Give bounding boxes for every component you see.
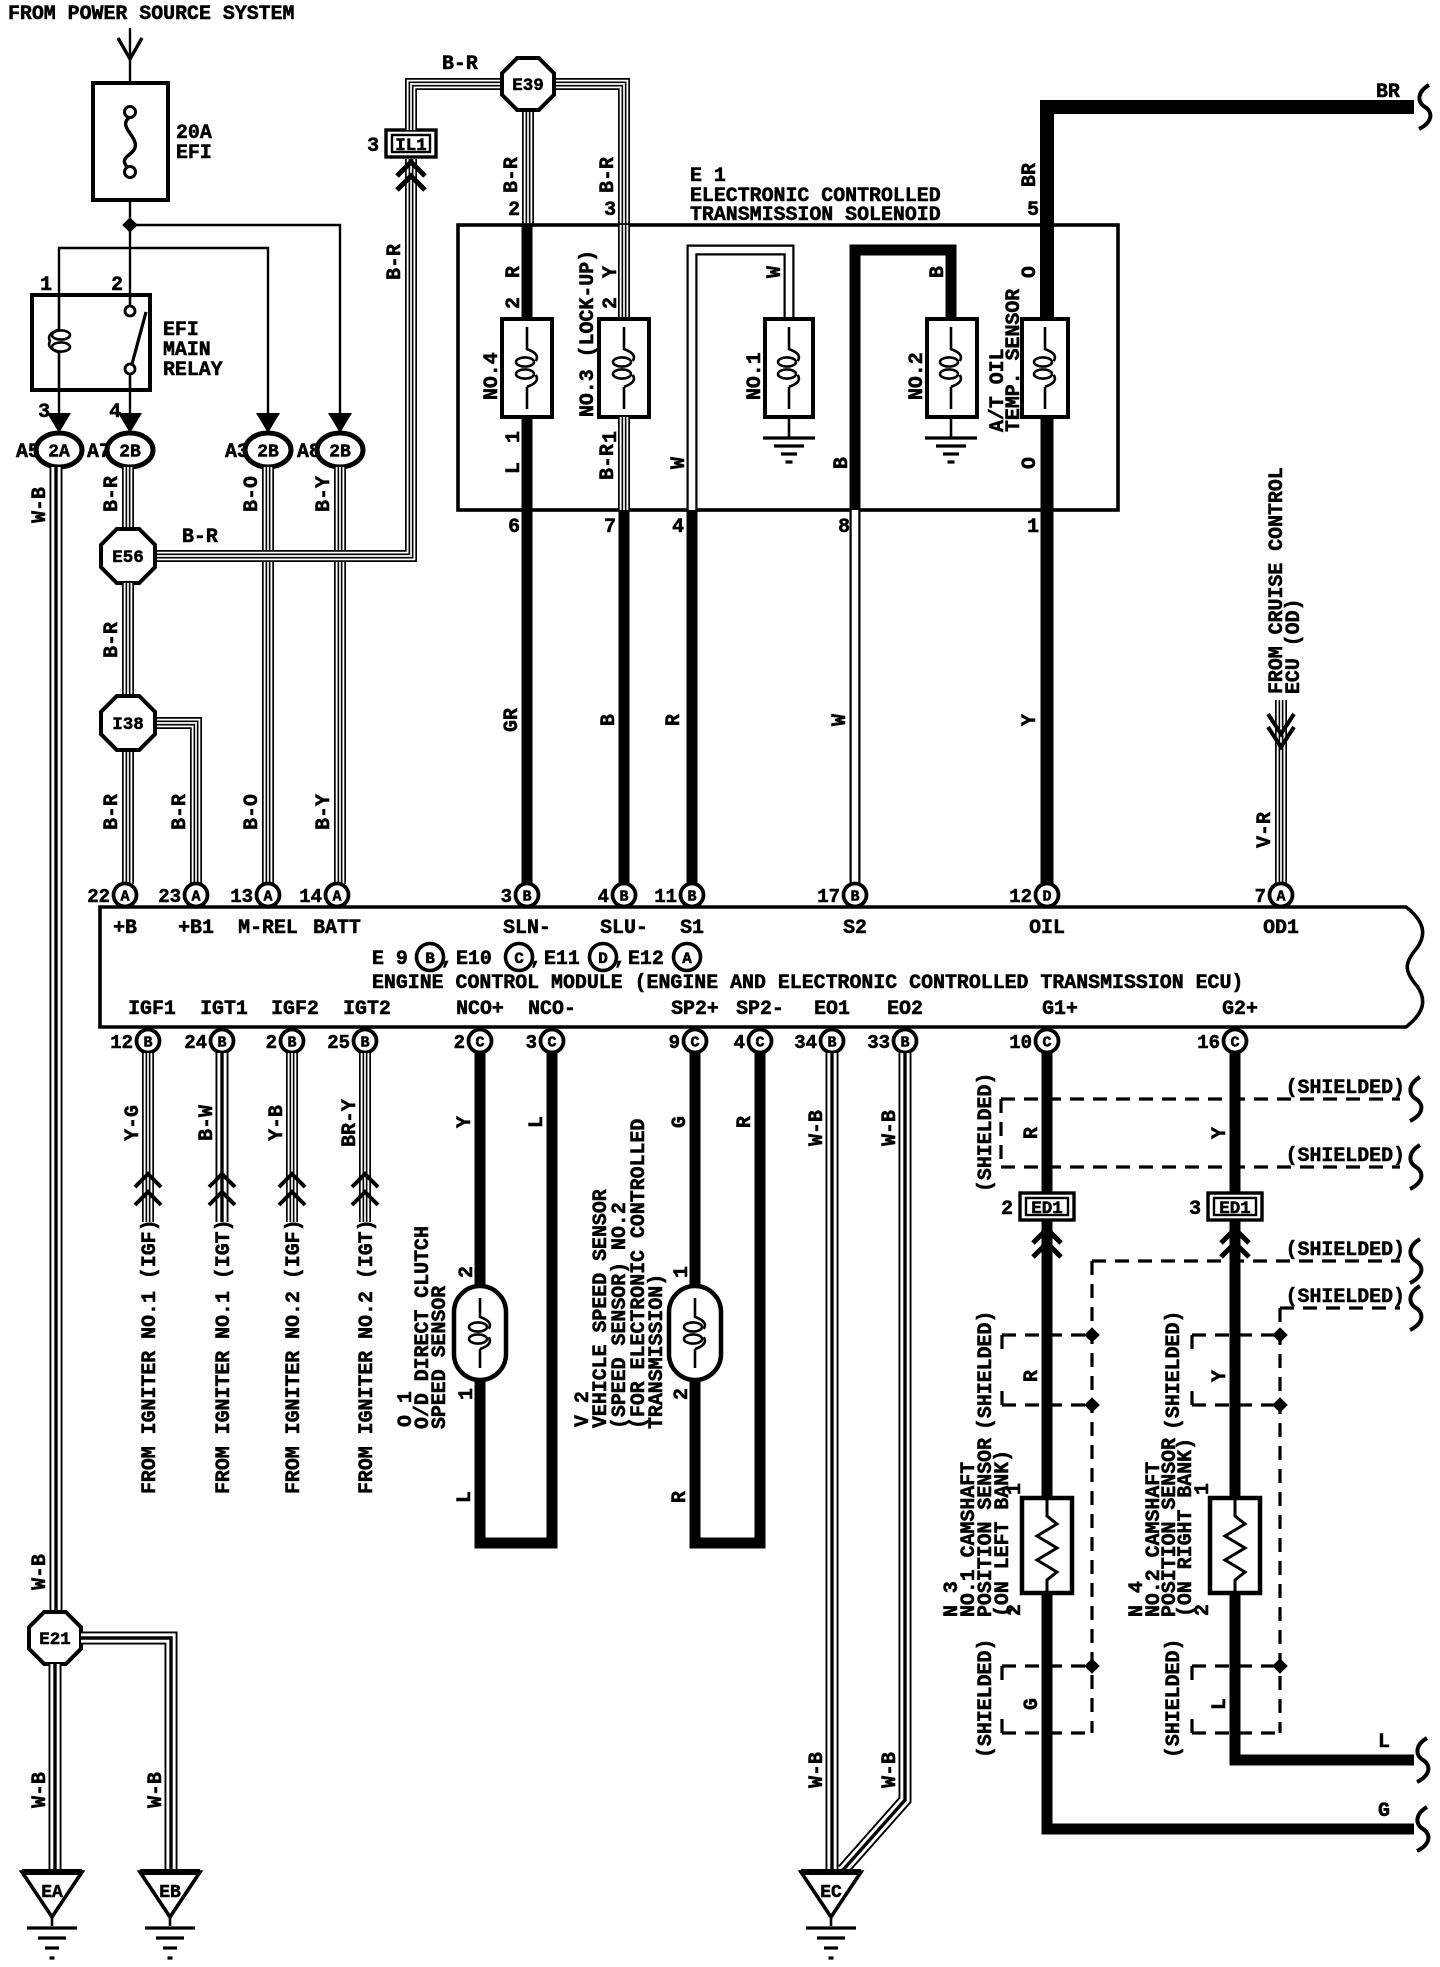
svg-text:OD1: OD1	[1263, 916, 1299, 939]
svg-text:2: 2	[266, 1032, 277, 1054]
svg-text:R: R	[668, 1491, 691, 1503]
wire B-R I38 branch to ECU +B1	[128, 723, 196, 884]
svg-text:2: 2	[455, 1266, 478, 1278]
wire W-B EO2 to EC ground	[843, 1053, 905, 1870]
svg-text:EO2: EO2	[887, 997, 923, 1020]
svg-text:11: 11	[654, 886, 677, 908]
svg-text:2: 2	[502, 297, 525, 309]
connector IL1	[386, 130, 436, 157]
wire G from N3 to bottom right	[1047, 1593, 1414, 1829]
svg-text:M-REL: M-REL	[238, 916, 298, 939]
junction E39	[502, 58, 554, 110]
wire W loop to solenoid NO.1	[692, 250, 789, 510]
svg-text:B-R: B-R	[100, 794, 123, 830]
svg-text:B-R: B-R	[500, 157, 523, 193]
shield bracket around N4 lower wire	[1192, 1664, 1280, 1667]
svg-text:1: 1	[599, 431, 622, 443]
solenoid NO.3 LOCK-UP	[599, 319, 649, 417]
svg-text:R: R	[1020, 1127, 1043, 1139]
wire B-W from igniter	[216, 1053, 229, 1222]
svg-text:W-B: W-B	[805, 1752, 828, 1788]
svg-text:B-Y: B-Y	[312, 476, 335, 512]
sensor O1 O/D direct clutch speed sensor	[454, 1286, 506, 1380]
svg-text:1: 1	[1027, 515, 1039, 538]
svg-text:33: 33	[867, 1032, 890, 1054]
svg-text:17: 17	[817, 886, 840, 908]
svg-text:2: 2	[508, 198, 520, 221]
svg-text:(SHIELDED): (SHIELDED)	[1162, 1639, 1185, 1758]
svg-text:FROM IGNITER NO.1 (IGT): FROM IGNITER NO.1 (IGT)	[212, 1219, 235, 1494]
ECU top pin 23 A +B1	[185, 884, 208, 907]
svg-text:B: B	[827, 1035, 836, 1052]
ECU bottom pin 2 B IGF2	[281, 1030, 304, 1053]
svg-text:V-R: V-R	[1253, 812, 1276, 848]
svg-text:(SHIELDED): (SHIELDED)	[974, 1311, 997, 1430]
svg-text:TRANSMISSION SOLENOID: TRANSMISSION SOLENOID	[690, 203, 941, 226]
svg-text:(ON RIGHT BANK): (ON RIGHT BANK)	[1174, 1438, 1197, 1617]
svg-text:(SHIELDED): (SHIELDED)	[1286, 1144, 1405, 1167]
svg-text:C: C	[1230, 1035, 1239, 1052]
ECU top pin 17 B S2	[844, 884, 867, 907]
wire BR from A/T oil temp sensor to top right	[1047, 107, 1414, 319]
svg-text:3: 3	[604, 198, 616, 221]
wire Y ED1 to camshaft sensor N4	[1230, 1221, 1241, 1498]
camshaft position sensor N3	[1022, 1498, 1072, 1593]
svg-text:B-R: B-R	[100, 622, 123, 658]
wire V-R from cruise control ECU to OD1	[1275, 700, 1287, 884]
svg-text:16: 16	[1197, 1032, 1220, 1054]
svg-text:IL1: IL1	[395, 136, 427, 156]
svg-text:O: O	[1018, 266, 1041, 278]
wire R G1+ to ED1	[1042, 1053, 1053, 1193]
svg-text:B-R: B-R	[100, 476, 123, 512]
svg-text:A: A	[682, 950, 692, 968]
svg-text:B: B	[143, 1035, 152, 1052]
svg-text:W-B: W-B	[144, 1772, 167, 1808]
svg-text:22: 22	[87, 886, 110, 908]
svg-text:E10: E10	[456, 947, 492, 970]
svg-text:2B: 2B	[257, 443, 279, 463]
arrow chevrons into IL1	[397, 162, 425, 176]
wire relay pin 4 to connector A7	[129, 390, 131, 414]
wire B-R E39 right to E1 pin 3	[553, 84, 624, 225]
svg-text:(SHIELDED): (SHIELDED)	[974, 1639, 997, 1758]
svg-text:B: B	[687, 889, 696, 906]
svg-text:G: G	[1378, 1799, 1390, 1822]
solenoid box E1 outline	[458, 225, 1118, 510]
svg-text:23: 23	[158, 886, 181, 908]
connector A7 2B	[107, 433, 153, 467]
svg-text:4: 4	[109, 400, 121, 423]
svg-text:W: W	[667, 457, 690, 469]
svg-text:C: C	[755, 1035, 764, 1052]
svg-text:W-B: W-B	[805, 1110, 828, 1146]
wire B-R from A7 to E56	[122, 467, 134, 531]
svg-text:E12: E12	[628, 947, 664, 970]
svg-text:Y-B: Y-B	[265, 1105, 288, 1141]
ECU bottom pin 10 C G1+	[1036, 1030, 1059, 1053]
wire Y OIL from E1 pin 1 to ECU	[1041, 510, 1054, 884]
wire B-R E39 to IL1	[411, 84, 503, 130]
svg-text:GR: GR	[500, 708, 523, 732]
wire B loop to solenoid NO.2	[855, 250, 951, 510]
svg-text:9: 9	[669, 1032, 680, 1054]
connector A3 2B	[245, 433, 291, 467]
svg-text:B-R: B-R	[182, 525, 218, 548]
svg-text:+B1: +B1	[178, 916, 214, 939]
svg-text:EC: EC	[820, 1883, 842, 1903]
svg-text:B-R: B-R	[383, 244, 406, 280]
svg-text:C: C	[690, 1035, 699, 1052]
ECU top pin 12 D OIL	[1036, 884, 1059, 907]
svg-text:B: B	[217, 1035, 226, 1052]
svg-text:1: 1	[502, 431, 525, 443]
svg-text:2A: 2A	[48, 443, 70, 463]
arrow chevrons below ED1 no3	[1221, 1229, 1249, 1243]
svg-text:2: 2	[1001, 1197, 1013, 1220]
svg-text:,: ,	[614, 947, 626, 970]
shield dashed box around G1 G2	[999, 1099, 1002, 1167]
svg-text:BR: BR	[1018, 163, 1041, 187]
junction E21	[29, 1612, 81, 1664]
svg-text:EB: EB	[159, 1883, 181, 1903]
svg-text:G: G	[668, 1116, 691, 1128]
solenoid NO.1	[765, 319, 813, 417]
svg-text:14: 14	[299, 886, 322, 908]
arrow into connector A5	[47, 413, 71, 433]
svg-text:Y: Y	[599, 266, 622, 278]
wire B-Y from A8 to ECU BATT	[334, 467, 346, 884]
svg-text:FROM IGNITER NO.2 (IGF): FROM IGNITER NO.2 (IGF)	[282, 1219, 305, 1494]
svg-text:(ON LEFT BANK): (ON LEFT BANK)	[991, 1450, 1014, 1617]
ground of NO.1	[788, 417, 791, 438]
svg-text:B-R: B-R	[596, 444, 619, 480]
svg-text:W-B: W-B	[28, 1772, 51, 1808]
svg-text:EFI: EFI	[176, 141, 212, 164]
svg-text:E 9: E 9	[372, 947, 408, 970]
svg-text:G: G	[1020, 1698, 1043, 1710]
wire L from N4 to bottom right	[1235, 1593, 1414, 1760]
ground EC	[801, 1872, 861, 1917]
shield bracket around N4 upper wire	[1192, 1333, 1280, 1336]
wire relay pin 3 to connector A5	[58, 390, 60, 414]
svg-text:4: 4	[734, 1032, 745, 1054]
svg-text:2B: 2B	[329, 443, 351, 463]
arrow into connector A7	[118, 413, 142, 433]
svg-text:B-R: B-R	[442, 52, 478, 75]
ECU bottom pin 34 B EO1	[821, 1030, 844, 1053]
svg-text:A: A	[1276, 889, 1285, 906]
svg-text:3: 3	[367, 134, 379, 157]
svg-text:E21: E21	[39, 1630, 71, 1650]
svg-text:1: 1	[40, 273, 52, 296]
svg-text:A: A	[191, 889, 200, 906]
svg-text:L: L	[453, 1491, 476, 1503]
svg-text:FROM IGNITER NO.1 (IGF): FROM IGNITER NO.1 (IGF)	[138, 1219, 161, 1494]
junction I38	[101, 696, 155, 750]
svg-text:ED1: ED1	[1219, 1199, 1251, 1219]
svg-text:D: D	[598, 950, 608, 968]
ECU box ENGINE CONTROL MODULE	[100, 907, 1423, 1027]
svg-text:SLU-: SLU-	[600, 916, 648, 939]
junction E56	[101, 529, 155, 583]
wire B-O from A3 to ECU M-REL	[262, 467, 274, 884]
svg-text:A7: A7	[87, 440, 111, 463]
svg-text:A5: A5	[16, 440, 40, 463]
svg-text:,: ,	[441, 947, 453, 970]
svg-text:2: 2	[111, 273, 123, 296]
wire R ED1 to camshaft sensor N3	[1042, 1221, 1053, 1498]
svg-text:12: 12	[1009, 886, 1032, 908]
svg-text:SLN-: SLN-	[503, 916, 551, 939]
svg-text:NO.1: NO.1	[743, 352, 766, 400]
wire L from O1 to NCO-	[480, 1053, 552, 1543]
svg-text:B: B	[850, 889, 859, 906]
wire Y G2+ to ED1	[1230, 1053, 1241, 1193]
svg-text:B-W: B-W	[195, 1105, 218, 1141]
svg-text:NO.4: NO.4	[480, 352, 503, 400]
svg-text:BATT: BATT	[313, 916, 361, 939]
svg-text:B: B	[287, 1035, 296, 1052]
svg-text:(SHIELDED): (SHIELDED)	[1162, 1311, 1185, 1430]
junction dot below fuse	[122, 217, 138, 233]
wire B-R from NO.3 to E1 pin 7	[618, 417, 630, 510]
wire Y-B from igniter	[286, 1053, 298, 1222]
svg-text:IGF1: IGF1	[128, 997, 176, 1020]
svg-text:3: 3	[526, 1032, 537, 1054]
svg-text:+B: +B	[113, 916, 137, 939]
ECU bottom pin 12 B IGF1	[137, 1030, 160, 1053]
ECU bottom pin 2 C NCO+	[469, 1030, 492, 1053]
svg-text:L: L	[502, 462, 525, 474]
svg-text:W-B: W-B	[28, 1554, 51, 1590]
svg-text:NO.3 (LOCK-UP): NO.3 (LOCK-UP)	[576, 250, 599, 417]
svg-text:A: A	[332, 889, 341, 906]
ECU bottom pin 24 B IGT1	[211, 1030, 234, 1053]
svg-text:EA: EA	[41, 1883, 63, 1903]
wire B SLU- from E1 pin 7 to ECU	[619, 510, 630, 884]
svg-text:I38: I38	[112, 715, 144, 735]
svg-text:7: 7	[604, 515, 616, 538]
wire Y NCO+ to O/D speed sensor	[475, 1053, 486, 1286]
svg-text:(SHIELDED): (SHIELDED)	[1286, 1076, 1405, 1099]
wire R from V2 to SP2-	[695, 1053, 760, 1543]
wire B-R from E56 down to I38	[122, 583, 134, 696]
svg-text:NO.2: NO.2	[905, 352, 928, 400]
svg-text:BR: BR	[1376, 80, 1400, 103]
wire B-R from E56 right to IL1 drop	[128, 159, 411, 556]
svg-text:IGT1: IGT1	[200, 997, 248, 1020]
svg-text:,: ,	[530, 947, 542, 970]
svg-text:2: 2	[599, 297, 622, 309]
svg-text:4: 4	[672, 515, 684, 538]
connector A8 2B	[317, 433, 363, 467]
svg-text:B-O: B-O	[240, 794, 263, 830]
svg-text:IGF2: IGF2	[271, 997, 319, 1020]
svg-text:(SHIELDED): (SHIELDED)	[974, 1073, 997, 1192]
svg-text:B-R: B-R	[596, 157, 619, 193]
svg-text:TEMP. SENSOR: TEMP. SENSOR	[1002, 289, 1025, 432]
svg-text:E11: E11	[544, 947, 580, 970]
sensor A/T OIL TEMP. SENSOR	[1022, 319, 1068, 417]
svg-text:S2: S2	[843, 916, 867, 939]
svg-text:Y: Y	[1018, 714, 1041, 726]
ECU top pin 11 B S1	[681, 884, 704, 907]
svg-text:SP2-: SP2-	[736, 997, 784, 1020]
svg-text:L: L	[1378, 1730, 1390, 1753]
svg-text:TRANSMISSION): TRANSMISSION)	[645, 1274, 668, 1429]
wire fuse to EFI main relay pin 2	[129, 200, 131, 295]
solenoid NO.2	[927, 319, 977, 417]
ECU top pin 3 B SLN-	[516, 884, 539, 907]
svg-text:A: A	[263, 889, 272, 906]
svg-text:NCO-: NCO-	[528, 997, 576, 1020]
wire R S1 from E1 pin 4 to ECU	[687, 510, 698, 884]
shield bracket around N3 upper wire	[1002, 1333, 1092, 1336]
svg-text:D: D	[1042, 889, 1051, 906]
ECU bottom pin 4 C SP2-	[749, 1030, 772, 1053]
svg-text:FROM IGNITER NO.2 (IGT): FROM IGNITER NO.2 (IGT)	[355, 1219, 378, 1494]
svg-text:7: 7	[1255, 886, 1266, 908]
svg-text:RELAY: RELAY	[163, 358, 223, 381]
ground EB	[140, 1872, 200, 1917]
svg-text:A8: A8	[297, 440, 321, 463]
wire G SP2+ to vehicle speed sensor	[690, 1053, 701, 1286]
wire BR-Y from igniter	[359, 1053, 371, 1222]
svg-text:ECU (OD): ECU (OD)	[1282, 599, 1305, 695]
ECU top pin 4 B SLU-	[613, 884, 636, 907]
svg-text:13: 13	[230, 886, 253, 908]
wire junction to BATT branch (to A8)	[130, 225, 340, 414]
wire Y-G from igniter	[142, 1053, 154, 1222]
svg-text:B: B	[900, 1035, 909, 1052]
svg-text:3: 3	[501, 886, 512, 908]
svg-text:(SHIELDED): (SHIELDED)	[1286, 1285, 1405, 1308]
wire O from sensor to E1 pin 1	[1041, 417, 1054, 510]
svg-text:G1+: G1+	[1042, 997, 1078, 1020]
svg-text:C: C	[1042, 1035, 1051, 1052]
svg-text:L: L	[1208, 1698, 1231, 1710]
svg-text:SPEED SENSOR: SPEED SENSOR	[428, 1286, 451, 1429]
svg-text:L: L	[525, 1116, 548, 1128]
svg-text:R: R	[502, 266, 525, 278]
svg-text:BR-Y: BR-Y	[338, 1099, 361, 1147]
svg-text:R: R	[1020, 1370, 1043, 1382]
svg-text:2: 2	[454, 1032, 465, 1054]
svg-text:B: B	[522, 889, 531, 906]
svg-text:NCO+: NCO+	[456, 997, 504, 1020]
svg-text:E56: E56	[112, 548, 144, 568]
arrow chevrons below ED1 no2	[1033, 1229, 1061, 1243]
svg-text:W-B: W-B	[878, 1752, 901, 1788]
ground of NO.2	[950, 417, 953, 438]
svg-text:12: 12	[110, 1032, 133, 1054]
svg-text:Y: Y	[1208, 1370, 1231, 1382]
svg-text:C: C	[547, 1035, 556, 1052]
svg-text:O: O	[1018, 457, 1041, 469]
ground EA	[22, 1872, 82, 1917]
svg-text:W: W	[828, 714, 851, 726]
svg-text:FROM POWER SOURCE SYSTEM: FROM POWER SOURCE SYSTEM	[8, 2, 294, 25]
wire R to solenoid NO.4	[522, 225, 533, 319]
svg-text:25: 25	[327, 1032, 350, 1054]
svg-text:B: B	[926, 266, 949, 278]
svg-text:E39: E39	[512, 76, 544, 96]
svg-text:OIL: OIL	[1029, 916, 1065, 939]
arrow into connector A8	[328, 413, 352, 433]
svg-text:2B: 2B	[119, 443, 141, 463]
svg-text:Y: Y	[1208, 1127, 1231, 1139]
svg-text:4: 4	[598, 886, 609, 908]
svg-text:B-O: B-O	[240, 476, 263, 512]
svg-text:R: R	[662, 714, 685, 726]
svg-text:24: 24	[184, 1032, 207, 1054]
continuation brace BR	[1419, 85, 1430, 129]
connector A5 2A	[36, 433, 82, 467]
wire L from NO.4 to E1 pin 6	[522, 417, 533, 510]
svg-text:G2+: G2+	[1222, 997, 1258, 1020]
svg-text:B: B	[597, 714, 620, 726]
wire W-B E21 to EA	[49, 1664, 62, 1871]
svg-text:A: A	[120, 889, 129, 906]
svg-text:B: B	[360, 1035, 369, 1052]
shield bracket around N3 lower wire	[1002, 1664, 1092, 1667]
svg-text:1: 1	[670, 1266, 693, 1278]
solenoid NO.4	[502, 319, 552, 417]
svg-text:W-B: W-B	[28, 487, 51, 523]
svg-text:B-R: B-R	[168, 794, 191, 830]
sensor V2 vehicle speed sensor	[669, 1286, 721, 1380]
wire W-B EO1 to EC ground	[826, 1053, 839, 1871]
svg-text:IGT2: IGT2	[343, 997, 391, 1020]
svg-text:3: 3	[1189, 1197, 1201, 1220]
ECU bottom pin 25 B IGT2	[354, 1030, 377, 1053]
wire relay pin 1 to M-REL branch (to A3)	[59, 248, 268, 414]
svg-text:C: C	[514, 950, 524, 968]
ECU top pin 7 A OD1	[1270, 884, 1293, 907]
svg-text:Y-G: Y-G	[121, 1105, 144, 1141]
relay EFI MAIN RELAY	[32, 295, 150, 390]
svg-text:8: 8	[838, 515, 850, 538]
svg-text:R: R	[733, 1116, 756, 1128]
svg-text:(SHIELDED): (SHIELDED)	[1286, 1238, 1405, 1261]
svg-text:B-Y: B-Y	[312, 794, 335, 830]
wire from power source into fuse	[129, 28, 131, 83]
ECU bottom pin 3 C NCO-	[541, 1030, 564, 1053]
svg-text:B: B	[425, 950, 435, 968]
svg-text:6: 6	[508, 515, 520, 538]
shield dashed lines 3 and 4	[1090, 1261, 1093, 1733]
svg-text:ENGINE CONTROL MODULE (ENGINE: ENGINE CONTROL MODULE (ENGINE AND ELECTR…	[372, 971, 1243, 994]
svg-text:B: B	[619, 889, 628, 906]
svg-text:ED1: ED1	[1031, 1199, 1063, 1219]
wire B-R E39 down to E1 pin 2	[522, 110, 534, 225]
wire W-B E21 branch to EB	[81, 1638, 171, 1871]
ECU top pin 22 A +B	[114, 884, 137, 907]
svg-text:C: C	[475, 1035, 484, 1052]
fuse 20A EFI	[93, 83, 168, 200]
wire B-R I38 down to ECU +B	[122, 750, 134, 884]
svg-text:W: W	[763, 266, 786, 278]
svg-text:A3: A3	[225, 440, 249, 463]
ECU top pin 14 A BATT	[326, 884, 349, 907]
svg-text:SP2+: SP2+	[671, 997, 719, 1020]
camshaft position sensor N4	[1210, 1498, 1260, 1593]
svg-text:EO1: EO1	[814, 997, 850, 1020]
ECU bottom pin 16 C G2+	[1224, 1030, 1247, 1053]
svg-text:S1: S1	[680, 916, 704, 939]
svg-text:B: B	[830, 457, 853, 469]
